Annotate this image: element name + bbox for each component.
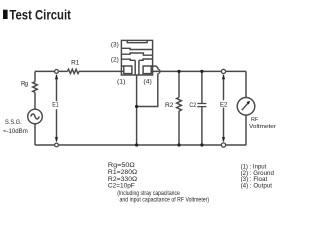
svg-text:Rg=50Ω: Rg=50Ω bbox=[108, 163, 136, 169]
svg-text:R2: R2 bbox=[165, 103, 174, 109]
title bullet bbox=[3, 10, 8, 19]
wire pin2 ground drop bbox=[136, 75, 138, 145]
voltmeter needle arrowhead bbox=[247, 101, 251, 105]
node E2 bottom bbox=[221, 143, 225, 147]
svg-text:E2: E2 bbox=[220, 102, 228, 108]
electrode right pad bbox=[143, 66, 151, 74]
svg-text:Test Circuit: Test Circuit bbox=[9, 8, 71, 23]
electrode top U pin3 bbox=[127, 40, 147, 42]
wire right branch to voltmeter bbox=[245, 71, 247, 145]
svg-text:(1): (1) bbox=[117, 79, 125, 85]
svg-text:R1=280Ω: R1=280Ω bbox=[108, 170, 138, 176]
svg-text:S.S.G.: S.S.G. bbox=[5, 120, 22, 126]
electrode bar2 bbox=[121, 53, 152, 55]
svg-text:Rg: Rg bbox=[21, 81, 28, 87]
RF voltmeter circle bbox=[237, 98, 255, 116]
svg-text:(2): (2) bbox=[111, 57, 119, 63]
E2 arrowhead down bbox=[222, 137, 225, 142]
svg-text:R2=330Ω: R2=330Ω bbox=[108, 177, 138, 183]
svg-text:C2=10pF: C2=10pF bbox=[108, 184, 135, 190]
E1 arrowhead down bbox=[55, 137, 58, 142]
pin1 stub bbox=[121, 66, 123, 71]
electrode bar1 bbox=[121, 48, 152, 49]
svg-text:(4) : Output: (4) : Output bbox=[241, 183, 273, 189]
junction dot ground bbox=[135, 105, 138, 108]
resistor R2 bbox=[177, 71, 182, 145]
svg-text:(4): (4) bbox=[143, 79, 151, 85]
svg-text:E1: E1 bbox=[52, 102, 59, 108]
node E1 bottom bbox=[55, 143, 59, 147]
wire right rail bbox=[153, 70, 246, 72]
E2 arrowhead up bbox=[222, 74, 225, 79]
junction dot R2 bottom bbox=[177, 143, 180, 146]
E2 measure arrow line bbox=[223, 75, 225, 142]
electrode bar3 right bbox=[139, 59, 153, 60]
svg-text:and input capacitance of RF Vo: and input capacitance of RF Voltmeter) bbox=[120, 197, 210, 203]
electrode left pad bbox=[124, 66, 132, 74]
junction dot pin2 bottom bbox=[135, 143, 138, 146]
signal generator S.S.G. bbox=[28, 109, 43, 124]
junction dot R2 top bbox=[177, 70, 180, 73]
node E1 top bbox=[55, 70, 59, 74]
wire top rail left bbox=[35, 70, 121, 72]
electrode center column pin2 bbox=[135, 60, 139, 75]
filter DUT box bbox=[121, 40, 152, 75]
voltmeter needle bbox=[242, 103, 249, 110]
electrode bar3 left bbox=[121, 59, 135, 60]
svg-text:(3): (3) bbox=[111, 42, 119, 48]
wire ground jog with hop bbox=[137, 66, 158, 106]
E1 measure arrow line bbox=[56, 75, 58, 142]
svg-text:RF: RF bbox=[251, 117, 259, 123]
resistor Rg bbox=[33, 82, 38, 93]
svg-text:(1) : Input: (1) : Input bbox=[241, 164, 267, 170]
capacitor C2 bbox=[201, 71, 203, 145]
pin4 stub bbox=[151, 66, 152, 71]
svg-text:(3) : Float: (3) : Float bbox=[241, 177, 268, 183]
wire left vertical bbox=[34, 71, 36, 145]
svg-text:R1: R1 bbox=[71, 60, 80, 66]
node E2 top bbox=[221, 69, 225, 73]
svg-text:C2: C2 bbox=[189, 103, 196, 109]
svg-text:(2) : Ground: (2) : Ground bbox=[241, 171, 274, 177]
svg-text:(Including stray capacitance: (Including stray capacitance bbox=[117, 191, 180, 197]
svg-text:Voltmeter: Voltmeter bbox=[249, 124, 276, 130]
svg-text:≈-10dBm: ≈-10dBm bbox=[3, 129, 28, 135]
wire bottom rail bbox=[35, 144, 246, 146]
junction dot C2 top bbox=[200, 70, 203, 73]
E1 arrowhead up bbox=[55, 74, 58, 79]
resistor R1 bbox=[68, 69, 80, 73]
junction dot C2 bottom bbox=[200, 143, 203, 146]
